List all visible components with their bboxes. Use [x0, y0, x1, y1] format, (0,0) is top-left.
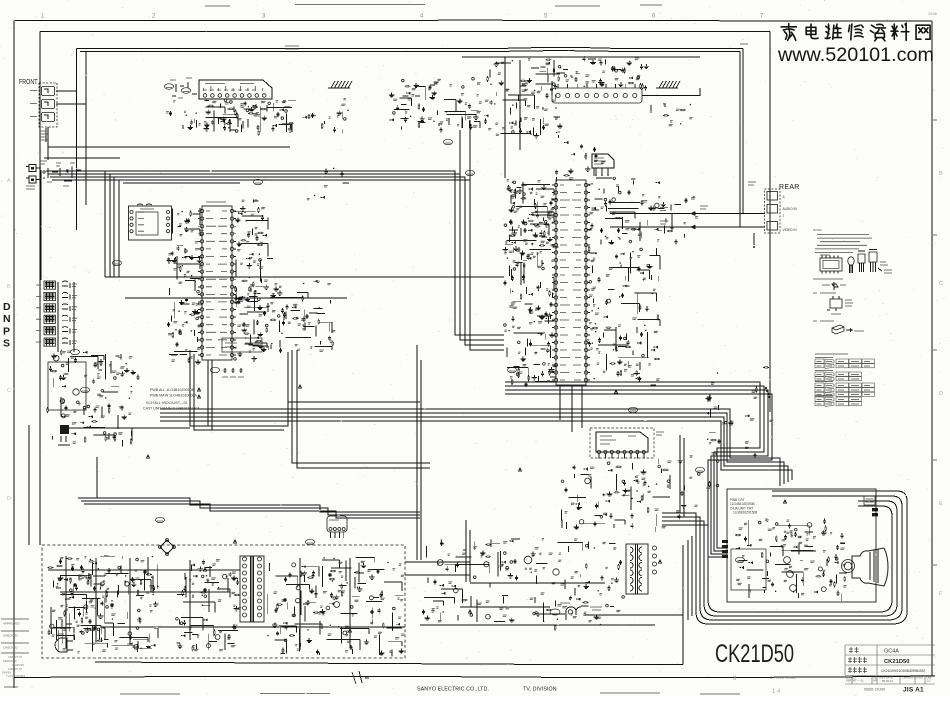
- svg-text:DESIGNED: DESIGNED: [3, 659, 17, 663]
- svg-text:REPORT — 01: REPORT — 01: [846, 679, 864, 683]
- svg-text:1LG9810Z0150B: 1LG9810Z0150B: [733, 511, 757, 515]
- svg-text:APPROVED: APPROVED: [3, 622, 21, 626]
- svg-text:C: C: [7, 388, 11, 394]
- svg-text:D: D: [3, 301, 11, 313]
- svg-text:1 4: 1 4: [772, 689, 781, 695]
- svg-text:TV. DIVISION: TV. DIVISION: [523, 687, 557, 693]
- svg-text:NOTE:: NOTE:: [813, 228, 822, 232]
- svg-text:1: 1: [783, 214, 785, 218]
- svg-text:GC4A: GC4A: [884, 649, 899, 655]
- svg-text:PWB MAIN 1LG4B10Z0006A: PWB MAIN 1LG4B10Z0006A: [150, 394, 198, 398]
- svg-text:PWB ALL 1LG4B10Z0090B: PWB ALL 1LG4B10Z0090B: [150, 388, 195, 392]
- svg-text:96.06.21: 96.06.21: [882, 679, 893, 683]
- svg-text:D: D: [7, 496, 11, 502]
- svg-text:A: A: [7, 178, 11, 184]
- svg-text:CIRCUIT DI: CIRCUIT DI: [8, 655, 22, 659]
- svg-text:JIS A1: JIS A1: [903, 687, 924, 694]
- svg-text:FRONT: FRONT: [19, 79, 38, 86]
- svg-text:CK21D99/21D50B/D99B/A92: CK21D99/21D50B/D99B/A92: [881, 669, 925, 673]
- svg-text:VIDEO IN: VIDEO IN: [783, 228, 798, 232]
- svg-text:1/2: 1/2: [927, 679, 931, 683]
- svg-text:E: E: [939, 501, 943, 507]
- svg-text:NP: NP: [873, 679, 877, 683]
- svg-text:TV-2CHTV/0903: TV-2CHTV/0903: [6, 674, 26, 678]
- svg-text:CA3T UNIT MAIN 1LG9810Z0150A: CA3T UNIT MAIN 1LG9810Z0150A: [143, 407, 200, 411]
- svg-text:www.520101.com: www.520101.com: [777, 44, 934, 66]
- svg-text:CK21D50: CK21D50: [884, 659, 909, 665]
- svg-text:REAR: REAR: [779, 184, 800, 191]
- svg-text:B: B: [939, 171, 943, 177]
- svg-text:SANYO ELECTRIC CO.,LTD.: SANYO ELECTRIC CO.,LTD.: [417, 687, 489, 693]
- svg-text:9S831 CK200: 9S831 CK200: [864, 688, 885, 692]
- svg-text:CK21D50: CK21D50: [715, 640, 794, 668]
- svg-text:C: C: [939, 281, 943, 287]
- svg-text:3946: 3946: [928, 11, 938, 16]
- svg-text:ORIGINAL MODEL: ORIGINAL MODEL: [770, 676, 796, 680]
- svg-text:B: B: [7, 284, 11, 290]
- svg-text:N: N: [3, 313, 11, 325]
- svg-text:SCH ALL 9SDCAJST—01: SCH ALL 9SDCAJST—01: [146, 401, 188, 405]
- svg-text:CHECKED: CHECKED: [3, 646, 19, 650]
- svg-text:P: P: [3, 325, 10, 337]
- svg-text:S: S: [3, 338, 10, 350]
- svg-text:1LG4B10Z0090B: 1LG4B10Z0090B: [730, 502, 755, 506]
- svg-text:ADAPTED: ADAPTED: [12, 663, 24, 667]
- svg-text:CIRCUIT DI: CIRCUIT DI: [8, 667, 22, 671]
- svg-text:CHASSIS PLANO: CHASSIS PLANO: [902, 676, 923, 680]
- svg-text:AUDIO IN: AUDIO IN: [783, 207, 798, 211]
- svg-text:CHECKED: CHECKED: [3, 634, 19, 638]
- svg-text:D: D: [939, 391, 943, 397]
- svg-text:DRIGIN: DRIGIN: [2, 671, 11, 675]
